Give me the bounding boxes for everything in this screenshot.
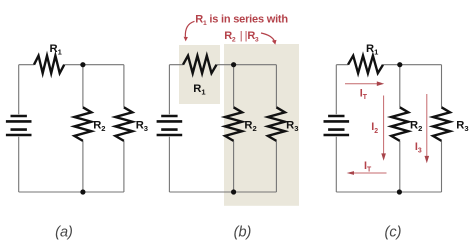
svg-text:R2: R2 <box>410 119 422 133</box>
wire: (c) left battery branch <box>335 65 337 192</box>
battery B1 (b) <box>157 116 183 135</box>
resistor R1 (b) <box>183 56 217 73</box>
battery B1 (a) <box>6 116 32 135</box>
node: (c) top junction <box>397 62 402 67</box>
node: (b) bottom junction <box>231 189 236 194</box>
svg-text:R1: R1 <box>50 43 63 57</box>
wire: (a) top <box>19 64 124 66</box>
resistor R3 (a) <box>115 107 132 141</box>
wire: (c) bottom <box>336 191 441 193</box>
current arrow I2 (c) <box>381 96 386 161</box>
resistor R3 (b) <box>268 107 285 141</box>
node: (c) bottom junction <box>397 189 402 194</box>
wire: (a) bottom <box>19 191 124 193</box>
resistor R2 (b) <box>225 107 242 141</box>
svg-text:(c): (c) <box>385 224 402 240</box>
svg-text:R1: R1 <box>366 43 379 57</box>
annotation arrow to R2R3 box (b) <box>261 33 277 45</box>
svg-text:I3: I3 <box>415 141 422 155</box>
annotation arrow to R1 box (b) <box>184 21 195 41</box>
wire: (b) right R3 branch <box>275 65 277 192</box>
wire: (a) left battery branch <box>18 65 20 192</box>
svg-text:I2: I2 <box>371 121 378 135</box>
svg-text:R1 is in series with: R1 is in series with <box>195 14 288 27</box>
resistor R3 (c) <box>433 107 450 141</box>
wire: (c) right R3 branch <box>441 65 443 192</box>
svg-text:(a): (a) <box>55 224 73 240</box>
resistor R2 (c) <box>391 107 408 141</box>
current arrow IT bottom (c) <box>347 171 387 175</box>
highlight box: R1 series group (b) <box>179 45 220 104</box>
battery B1 (c) <box>324 116 350 135</box>
wire: (a) R2 branch <box>82 65 84 192</box>
resistor R1 (a) <box>34 56 64 73</box>
svg-text:R3: R3 <box>136 120 148 134</box>
svg-text:IT: IT <box>360 88 368 102</box>
wire: (b) bottom <box>169 191 276 193</box>
wire: (b) R2 branch <box>233 65 235 192</box>
node: (a) top junction <box>80 62 85 67</box>
svg-text:R3: R3 <box>456 119 468 133</box>
wire: (b) left battery branch <box>168 65 170 192</box>
svg-text:(b): (b) <box>234 224 252 240</box>
resistor R2 (a) <box>74 107 91 141</box>
highlight box: R2 parallel R3 group (b) <box>224 44 299 206</box>
wire: (b) top <box>169 64 276 66</box>
wire: (c) top <box>336 64 441 66</box>
node: (b) top junction <box>231 62 236 67</box>
wire: (a) right R3 branch <box>123 65 125 192</box>
svg-text:R2: R2 <box>93 120 105 134</box>
current arrow I3 (c) <box>425 94 430 163</box>
wire: (c) R2 branch <box>399 65 401 192</box>
svg-text:R2||R3: R2||R3 <box>224 30 259 44</box>
resistor R1 (c) <box>348 56 383 73</box>
current arrow IT top (c) <box>345 81 384 86</box>
node: (a) bottom junction <box>80 189 85 194</box>
svg-text:IT: IT <box>364 160 372 174</box>
